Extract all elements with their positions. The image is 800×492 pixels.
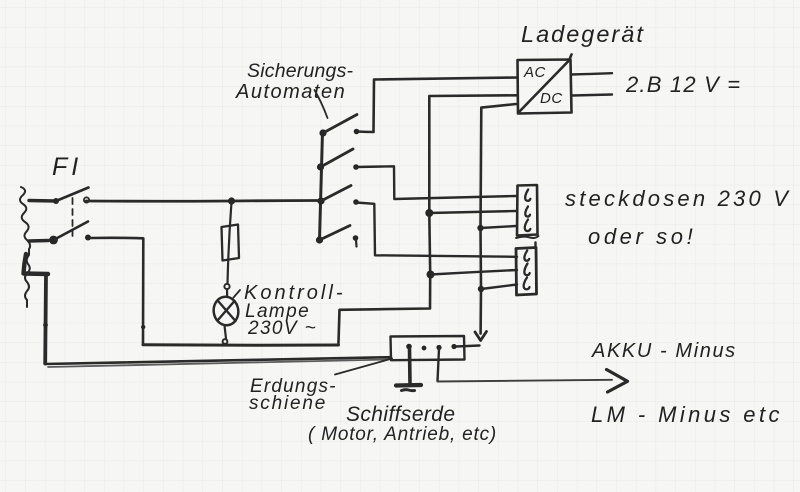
socket1 pin hook c bbox=[525, 220, 531, 232]
junction dot breaker2 bbox=[317, 163, 324, 170]
lamp bottom wire bbox=[225, 326, 227, 339]
charger U1 AC/DC box bbox=[518, 55, 572, 114]
socket2 pin hook b bbox=[524, 264, 529, 276]
contact dot S1 bbox=[354, 129, 360, 135]
junction dot rail fuse tap bbox=[228, 197, 235, 204]
bus bar dot4 bbox=[451, 344, 456, 349]
svg-text:Schiffserde: Schiffserde bbox=[346, 403, 455, 426]
wire N to socket1 mid bbox=[429, 211, 516, 213]
socket1 pin hook b bbox=[525, 207, 530, 217]
wire PE to socket1 bottom bbox=[481, 226, 517, 228]
fuse F1 wire through bbox=[228, 202, 232, 283]
main rail L from FI to breakers bbox=[86, 199, 321, 203]
svg-text:steckdosen 230 V: steckdosen 230 V bbox=[565, 186, 791, 211]
svg-text:DC: DC bbox=[540, 90, 563, 107]
pointer Kontroll to lamp bbox=[234, 290, 241, 298]
pointer Erdungs to bar bbox=[335, 359, 392, 375]
wire N to socket2 mid bbox=[431, 270, 518, 275]
FI linkage dashed bbox=[72, 198, 74, 236]
bus bar dot3 bbox=[436, 345, 441, 350]
svg-text:230V ~: 230V ~ bbox=[247, 318, 317, 339]
wire DC output plus bbox=[572, 73, 613, 74]
contact dot S3 bbox=[353, 199, 359, 205]
svg-text:AKKU - Minus: AKKU - Minus bbox=[591, 340, 737, 362]
earth bus bar box bbox=[391, 336, 465, 360]
svg-text:Ladegerät: Ladegerät bbox=[521, 21, 645, 47]
lamp top link wire bbox=[226, 289, 228, 297]
wire long arrow to AKKU minus bbox=[438, 380, 613, 382]
socket1 bottom squiggle bbox=[516, 236, 539, 238]
bus bar dot1 bbox=[406, 344, 412, 350]
wire PE to socket2 bottom bbox=[481, 285, 517, 290]
wire breaker2 to socket1 top bbox=[356, 166, 516, 199]
fuse F1 body bbox=[222, 225, 240, 261]
ground bar 1 bbox=[396, 383, 421, 388]
shore zigzag wire bbox=[20, 187, 30, 307]
lamp rail N bottom bbox=[143, 343, 338, 346]
lamp H1 circle bbox=[212, 295, 240, 327]
wire breaker3 to socket2 top bbox=[356, 203, 517, 257]
breaker S1 blade bbox=[323, 115, 357, 134]
breaker S2 blade bbox=[321, 149, 354, 167]
junction dot PE socket2 bbox=[478, 286, 484, 292]
breaker S3 blade bbox=[321, 186, 351, 202]
wire DC output minus bbox=[572, 95, 612, 96]
wire bus dot3 down bbox=[438, 349, 440, 381]
FI pole1 pivot dot bbox=[53, 198, 59, 204]
lamp X stroke2 bbox=[219, 302, 236, 322]
FI pole1 blade bbox=[56, 188, 89, 202]
wire PE arrow to bus dot4 bbox=[456, 346, 480, 347]
svg-text:AC: AC bbox=[523, 64, 546, 81]
svg-text:LM - Minus etc: LM - Minus etc bbox=[591, 402, 783, 427]
ground bar 2 squiggle bbox=[402, 390, 415, 391]
thick PE stub from shore bbox=[24, 254, 49, 274]
svg-text:Sicherungs-: Sicherungs- bbox=[247, 60, 354, 82]
wire L feed to charger bbox=[357, 78, 517, 133]
contact dot S4 bbox=[353, 235, 359, 241]
junction dot N socket2 bbox=[427, 271, 435, 279]
FI pole2 contact dot bbox=[85, 235, 91, 241]
junction dot breaker3 bbox=[317, 197, 324, 204]
contact dot S2 bbox=[353, 164, 359, 170]
contact4 stub bbox=[355, 240, 358, 247]
blob on PE vertical bbox=[43, 323, 48, 328]
svg-text:oder so!: oder so! bbox=[588, 224, 696, 249]
svg-text:2.B 12 V =: 2.B 12 V = bbox=[625, 72, 741, 97]
socket group 2 outline bbox=[516, 248, 537, 296]
arrowhead AKKU minus bbox=[607, 370, 628, 393]
FI pole2 pivot dot bbox=[49, 236, 58, 245]
breaker bus vertical bbox=[320, 132, 323, 240]
svg-text:Automaten: Automaten bbox=[235, 81, 346, 103]
lamp bottom connector blob bbox=[223, 339, 228, 344]
breaker S4 blade bbox=[320, 226, 351, 241]
FI pole1 input wire bbox=[29, 199, 56, 203]
PE rail to earth bar upper stroke bbox=[45, 357, 391, 364]
socket1 pin hook a bbox=[525, 190, 530, 201]
junction dot breaker1 bbox=[319, 129, 326, 136]
wire N bus vertical with step to lamp rail bbox=[338, 95, 517, 345]
lamp X stroke1 bbox=[218, 301, 235, 321]
socket2 pin hook c bbox=[524, 278, 530, 290]
svg-text:FI: FI bbox=[52, 153, 82, 181]
svg-text:( Motor, Antrieb, etc): ( Motor, Antrieb, etc) bbox=[308, 424, 497, 445]
ground lead wire bbox=[408, 349, 412, 383]
wire PE slant into charger bbox=[481, 104, 517, 334]
arrowhead PE to earth bar bbox=[475, 332, 487, 341]
PE rail to earth bar lower stroke bbox=[48, 360, 388, 368]
wire N from FI down bbox=[91, 238, 143, 345]
junction dot PE socket1 bbox=[477, 225, 483, 231]
FI pole1 contact circle bbox=[84, 197, 89, 202]
junction dot breaker4 bbox=[316, 236, 323, 243]
socket2 pin hook a bbox=[524, 251, 529, 261]
svg-text:schiene: schiene bbox=[249, 393, 327, 414]
thick PE vertical bbox=[43, 274, 48, 364]
FI pole2 input wire bbox=[29, 239, 48, 243]
pointer line Automaten to breakers bbox=[315, 90, 328, 118]
socket2 top tick bbox=[534, 243, 536, 248]
lamp top connector blob bbox=[224, 284, 229, 289]
junction dot N socket1 bbox=[425, 209, 433, 217]
bus bar dot2 bbox=[422, 346, 427, 351]
socket group 1 outline bbox=[517, 185, 538, 236]
blob on N vertical bbox=[141, 325, 145, 329]
FI pole2 blade bbox=[54, 222, 89, 241]
